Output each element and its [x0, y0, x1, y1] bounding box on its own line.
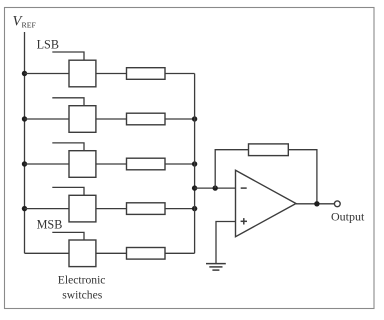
junction on VREF bus row 4 — [22, 206, 27, 211]
wire row 3: resistor to summing bus — [165, 163, 195, 165]
svg-text:MSB: MSB — [37, 218, 63, 232]
resistor R5 — [127, 248, 166, 260]
junction on VREF bus row 3 — [22, 161, 27, 166]
switch S2 — [69, 106, 96, 133]
wire row 4: bus to switch — [25, 208, 70, 210]
wire row 4: switch to resistor — [96, 208, 127, 210]
resistor Rf (feedback) — [249, 144, 289, 156]
resistor R4 — [127, 203, 166, 215]
wire row 1: resistor to summing bus — [165, 73, 195, 75]
wire: feedback to output node — [288, 150, 317, 204]
junction: feedback tap — [213, 185, 218, 190]
wire: feedback up and over — [215, 150, 248, 188]
wire: control input row 5 — [52, 232, 84, 240]
wire: op-amp output — [296, 203, 334, 205]
svg-text:REF: REF — [22, 20, 37, 29]
svg-text:switches: switches — [62, 288, 102, 301]
junction on summing bus row 2 — [192, 116, 197, 121]
op-amp U1 — [236, 170, 297, 236]
wire: VREF bus — [24, 32, 26, 253]
wire row 5: resistor to summing bus — [165, 252, 195, 254]
wire: control input row 2 — [52, 98, 84, 106]
wire: control input row 1 (LSB) — [52, 52, 84, 60]
junction on summing bus row 3 — [192, 161, 197, 166]
wire: summing node to op-amp inverting input — [195, 187, 236, 189]
wire: control input row 3 — [52, 143, 84, 151]
wire: non-inverting input to ground — [216, 222, 236, 264]
switch S4 — [69, 195, 96, 222]
wire row 2: bus to switch — [25, 118, 70, 120]
wire row 3: bus to switch — [25, 163, 70, 165]
resistor R2 — [127, 113, 166, 125]
switch S1 — [69, 60, 96, 87]
junction: summing node on bus — [192, 185, 197, 190]
wire row 4: resistor to summing bus — [165, 208, 195, 210]
wire row 2: switch to resistor — [96, 118, 127, 120]
wire row 1: switch to resistor — [96, 73, 127, 75]
switch S3 — [69, 151, 96, 178]
junction on summing bus row 4 — [192, 206, 197, 211]
wire row 5: bus corner to switch (MSB) — [25, 252, 70, 254]
wire row 3: switch to resistor — [96, 163, 127, 165]
wire row 1: bus to switch — [25, 73, 70, 75]
resistor R3 — [127, 158, 166, 170]
output terminal — [334, 201, 340, 207]
junction: output/feedback node — [314, 201, 319, 206]
svg-text:LSB: LSB — [37, 37, 59, 51]
op-amp non-inverting input mark — [241, 220, 247, 222]
svg-text:Output: Output — [331, 210, 365, 224]
ground — [206, 263, 226, 265]
svg-text:Electronic: Electronic — [58, 273, 106, 286]
junction on VREF bus row 2 — [22, 116, 27, 121]
wire: summing bus — [194, 74, 196, 254]
wire row 5: switch to resistor — [96, 252, 127, 254]
wire row 2: resistor to summing bus — [165, 118, 195, 120]
junction on VREF bus row 1 — [22, 71, 27, 76]
wire: control input row 4 — [52, 187, 84, 195]
switch S5 — [69, 240, 96, 267]
resistor R1 — [127, 68, 166, 80]
op-amp inverting input mark — [241, 187, 247, 189]
